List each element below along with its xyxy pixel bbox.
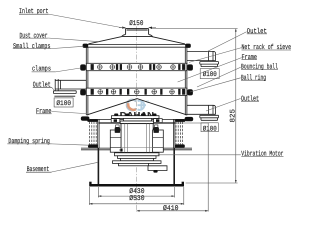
- lower right outlet skirt: [200, 115, 219, 120]
- motor bottom bracket: [148, 166, 167, 171]
- dim Ø430: [98, 187, 174, 198]
- watermark logo: [127, 100, 149, 111]
- weight guard bolt right: [155, 125, 158, 127]
- clamp band 1: [80, 63, 193, 70]
- plate bolts: [114, 114, 156, 116]
- damping spring right: [176, 122, 183, 145]
- svg-text:Dust cover: Dust cover: [20, 32, 48, 40]
- upper right outlet dim box Ø100: [200, 69, 219, 79]
- dim 825 extension bottom: [186, 182, 238, 184]
- leader frame right: [178, 58, 242, 82]
- dust cover rim: [86, 45, 187, 48]
- spring top seat right: [175, 120, 185, 122]
- left outlet skirt: [53, 91, 76, 96]
- leader clamps: [56, 68, 81, 72]
- leader small clamps: [51, 46, 83, 48]
- body wall left: [86, 47, 88, 115]
- dim Ø150: [119, 27, 156, 29]
- spring seat left: [88, 144, 98, 147]
- damping spring left: [90, 122, 97, 145]
- motor body seams: [125, 124, 150, 153]
- svg-text:Ø100: Ø100: [203, 125, 217, 133]
- leader outlet bottom right: [206, 99, 241, 112]
- clamp band 1 left cap: [80, 64, 86, 70]
- svg-text:Vibration Motor: Vibration Motor: [241, 150, 283, 159]
- svg-text:Ø100: Ø100: [203, 71, 217, 79]
- weight guard left: [110, 130, 121, 152]
- svg-text:Net rack of sieve: Net rack of sieve: [242, 43, 292, 52]
- dust cover: [88, 37, 185, 44]
- spring seat right: [175, 144, 185, 147]
- clamp band 2 right cap: [187, 89, 193, 95]
- svg-text:Ball ring: Ball ring: [241, 73, 266, 82]
- motor table: [98, 122, 175, 123]
- svg-text:Frame: Frame: [242, 54, 258, 62]
- svg-text:825: 825: [230, 109, 238, 123]
- basement post right: [174, 119, 175, 148]
- svg-text:Damping spring: Damping spring: [8, 137, 50, 146]
- leader vibration motor: [158, 154, 241, 156]
- leader basement: [52, 162, 99, 172]
- motor disc A: [115, 153, 160, 156]
- svg-text:Ø100: Ø100: [56, 100, 71, 108]
- spring top seat left: [87, 120, 97, 122]
- dim Ø530: [89, 187, 183, 205]
- weight guard left wedge: [119, 148, 123, 151]
- svg-text:Ø530: Ø530: [129, 195, 144, 203]
- leader net rack: [189, 48, 242, 63]
- svg-text:Outlet: Outlet: [33, 81, 51, 90]
- motor disc E: [119, 163, 149, 165]
- motor body: [121, 124, 153, 153]
- inlet port: [122, 29, 153, 37]
- centerline: [136, 26, 138, 212]
- leader inlet port: [49, 14, 126, 28]
- upper right outlet skirt: [200, 62, 219, 67]
- motor disc C: [121, 158, 154, 160]
- clamp band 2 left cap: [80, 89, 86, 95]
- svg-text:Small clamps: Small clamps: [13, 42, 51, 51]
- clamp band 2: [80, 88, 193, 95]
- vibration motor top plate: [112, 116, 160, 119]
- bottom rim cap left: [81, 116, 90, 120]
- motor upper flange: [123, 118, 151, 121]
- left outlet dim box Ø100: [54, 98, 73, 107]
- dim Ø410: [137, 123, 209, 212]
- svg-text:Outlet: Outlet: [241, 94, 259, 103]
- weight guard right: [153, 130, 164, 152]
- bottom cone: [87, 99, 187, 115]
- bracket dot: [153, 170, 157, 173]
- svg-text:Basement: Basement: [27, 166, 50, 174]
- leader outlet top right: [207, 32, 246, 52]
- leader dust cover: [48, 38, 100, 42]
- svg-text:Ø150: Ø150: [129, 20, 143, 28]
- upper right outlet pipe: [187, 51, 219, 66]
- svg-text:Ø410: Ø410: [163, 205, 179, 213]
- basement stand flange left: [81, 148, 110, 150]
- motor mount bracket left: [111, 119, 120, 123]
- motor bottom plate: [113, 161, 162, 164]
- clamp band 1 right cap: [187, 64, 193, 70]
- base plate lip left: [89, 182, 91, 185]
- basement base plate: [89, 184, 184, 187]
- dim 825 line: [235, 29, 237, 183]
- basement stand flange right: [163, 148, 192, 150]
- leader ball ring: [190, 78, 241, 92]
- leader frame left: [52, 112, 87, 114]
- bottom rim cap right: [185, 117, 194, 121]
- motor body joint line: [121, 147, 153, 149]
- motor upper band: [120, 121, 153, 124]
- svg-text:Frame: Frame: [36, 108, 51, 116]
- body wall right: [185, 47, 187, 115]
- motor disc B: [118, 156, 157, 159]
- lower right outlet pipe: [187, 105, 219, 120]
- weight guard bolt left: [116, 125, 119, 127]
- svg-text:Outlet: Outlet: [247, 27, 267, 36]
- leader outlet left: [52, 88, 54, 90]
- svg-text:Bouncing ball: Bouncing ball: [241, 63, 278, 72]
- leader damping spring: [52, 144, 90, 145]
- leader bouncing ball: [197, 67, 241, 87]
- bottom rim line: [90, 118, 185, 120]
- motor mount bracket right: [154, 119, 163, 123]
- lower right outlet dim box Ø100: [201, 123, 218, 132]
- svg-text:Inlet port: Inlet port: [19, 7, 49, 16]
- base plate lip right: [182, 182, 184, 185]
- basement post left: [98, 119, 99, 148]
- small clamp right (rim cap): [185, 44, 191, 48]
- small clamp left (rim cap): [83, 44, 89, 48]
- left outlet pipe: [53, 79, 86, 96]
- dim 825 extension top: [151, 28, 238, 30]
